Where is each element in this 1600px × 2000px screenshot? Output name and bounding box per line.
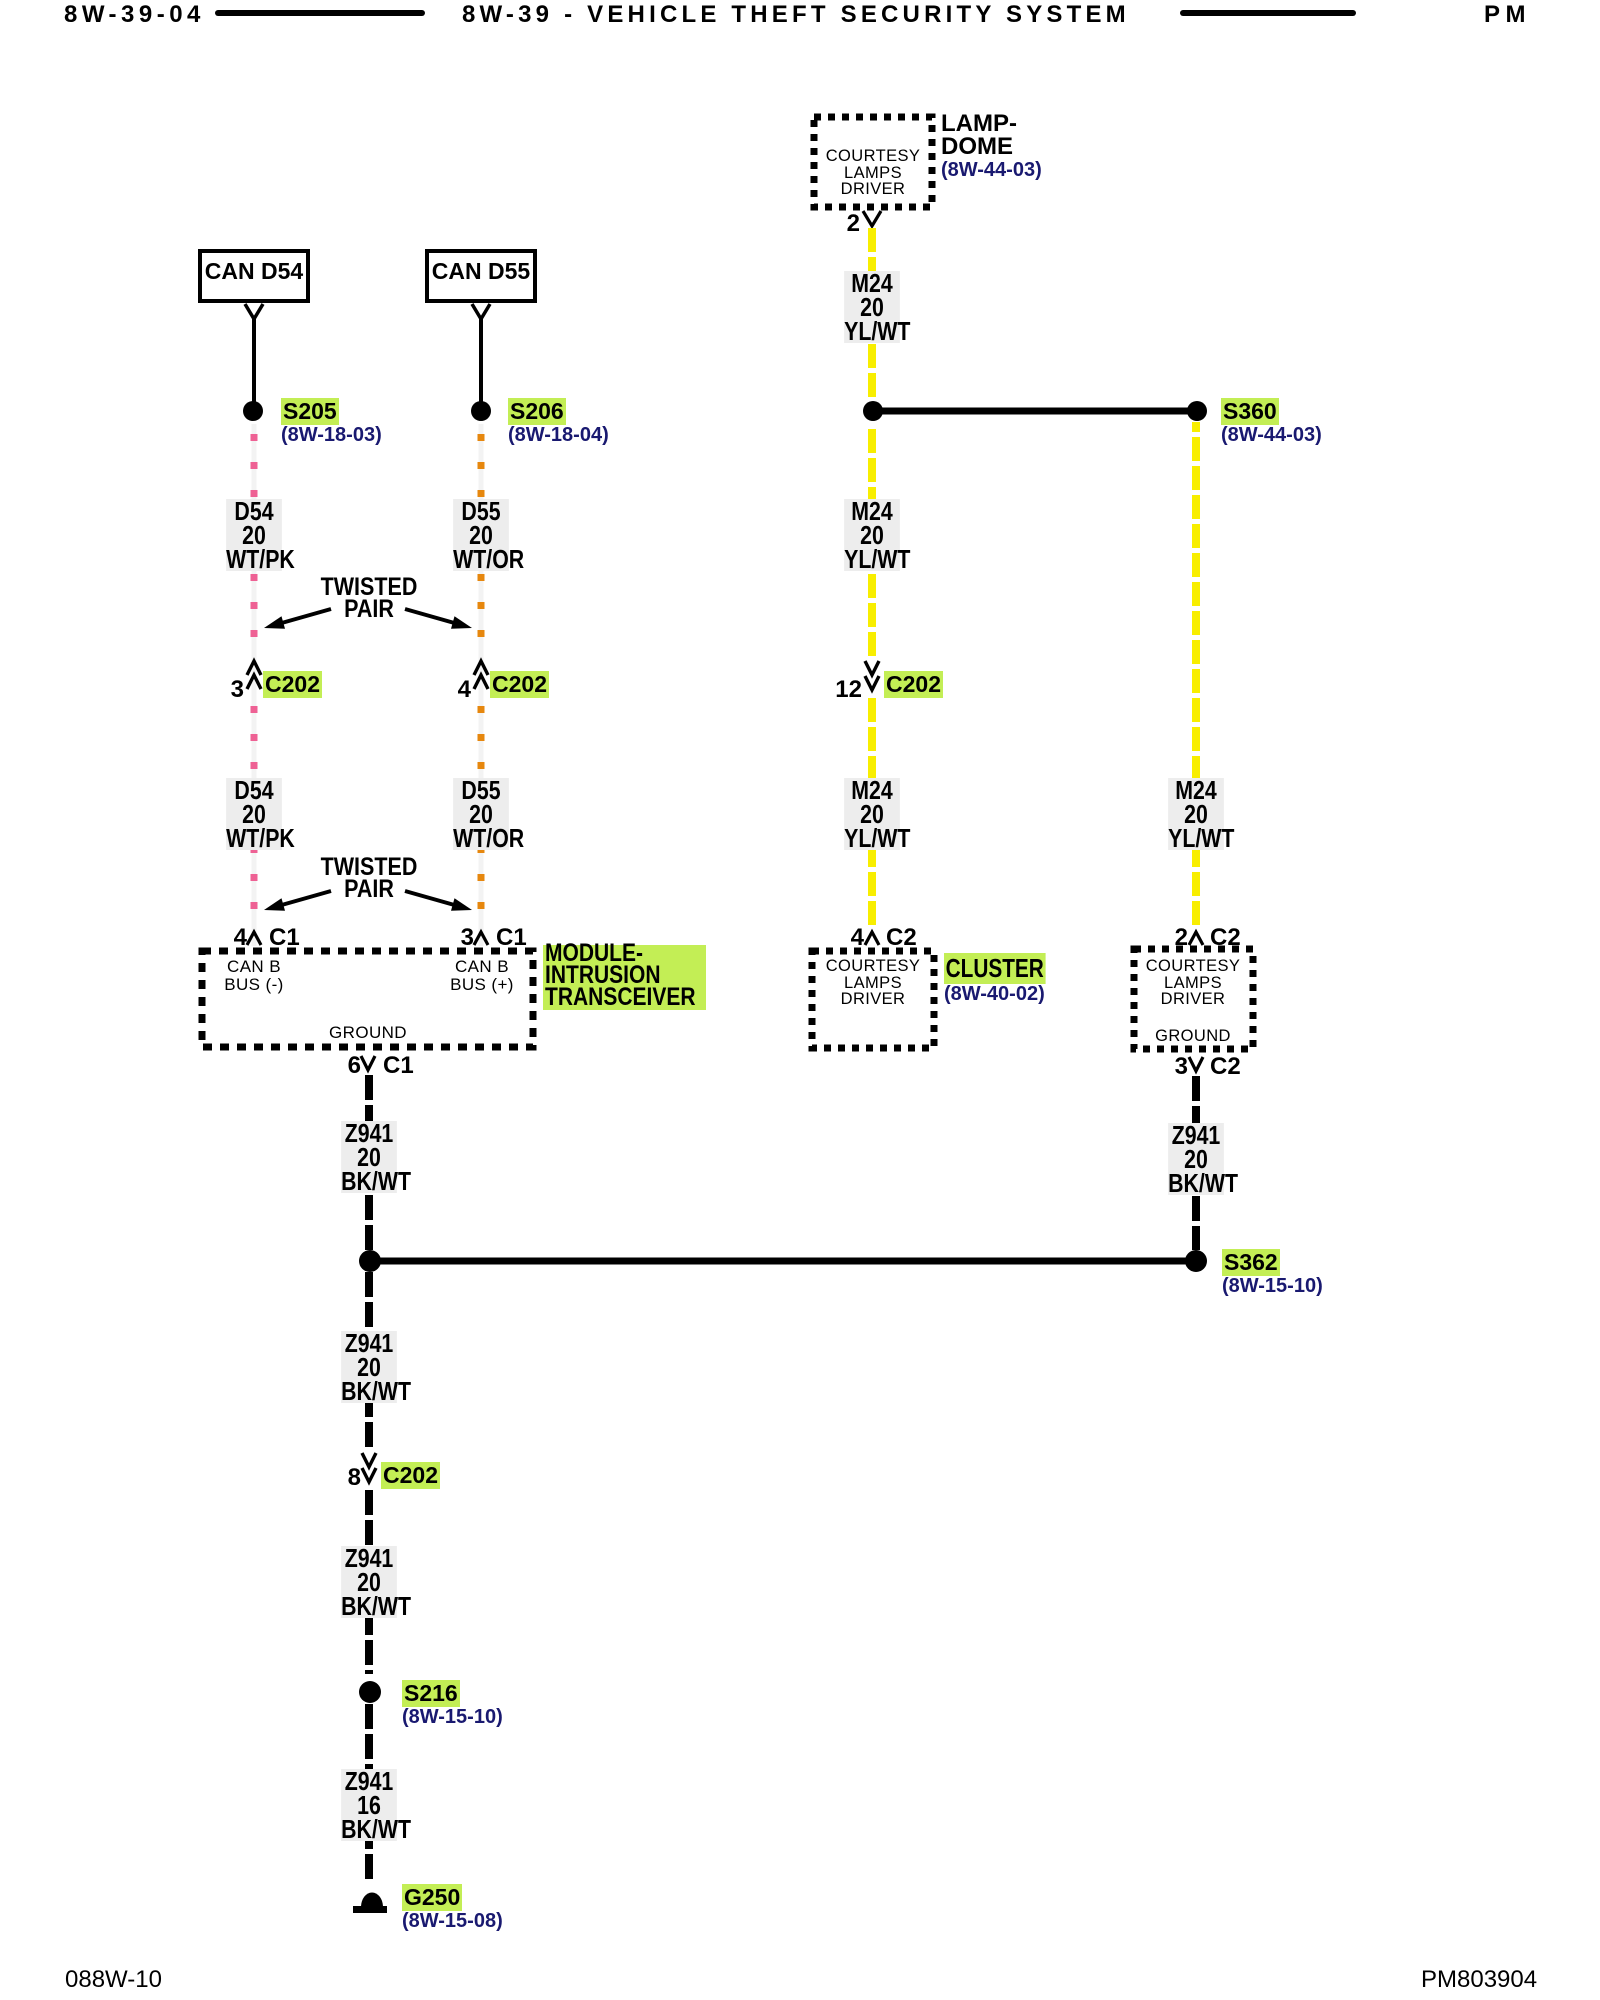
ref S362 xyxy=(1222,1275,1323,1298)
component box CAN D54 xyxy=(200,251,308,301)
label CLUSTER xyxy=(944,953,1045,984)
wire label M24 20 YL/WT mid xyxy=(844,499,900,571)
twisted pair arrows lower left xyxy=(264,891,331,911)
box text courtesy lamps driver (right) xyxy=(1146,958,1241,1008)
pin 4 C2 xyxy=(851,924,864,952)
pin 12 C202 xyxy=(835,676,862,704)
ref S216 xyxy=(402,1706,503,1729)
wire S360 bus horizontal xyxy=(873,408,1197,415)
box text ground right xyxy=(1155,1028,1231,1045)
connector 3 C202 double chevron up xyxy=(247,661,261,675)
wire label M24 20 YL/WT lower xyxy=(844,778,900,850)
wire D54 WT/PK lower segment (pink dots) xyxy=(251,706,258,928)
wire label Z941 20 BK/WT upper xyxy=(341,1331,397,1403)
ground G250 symbol xyxy=(361,1893,383,1908)
pin 6 C1 xyxy=(348,1052,361,1080)
label CAN D55 xyxy=(432,258,530,285)
label C202 bottom xyxy=(381,1462,440,1489)
wire D55 WT/OR upper segment (white base) xyxy=(479,424,484,946)
wire label D55 20 WT/OR upper xyxy=(453,499,509,571)
connector 3 C1 chevron up xyxy=(474,932,488,945)
footer left xyxy=(65,1966,162,1994)
note TWISTED PAIR lower xyxy=(321,856,418,900)
pin 3 C2 xyxy=(1175,1053,1188,1081)
ref CLUSTER xyxy=(944,983,1045,1006)
label MODULE-INTRUSION TRANSCEIVER xyxy=(543,945,706,1010)
connector 3 C2 chevron down xyxy=(1189,1057,1203,1071)
note TWISTED PAIR upper xyxy=(321,576,418,620)
connector 4 C202 double chevron up xyxy=(474,661,488,675)
twisted pair arrows upper right xyxy=(405,609,472,629)
wire Z941 below S362 xyxy=(365,1272,373,1448)
label C2 bottom right xyxy=(1210,1053,1241,1081)
pin 3 C202 xyxy=(231,676,244,704)
wire S362 bus horizontal xyxy=(370,1258,1196,1265)
module pin label CAN B BUS (+) xyxy=(450,958,514,994)
splice S205 xyxy=(243,401,263,421)
header PM xyxy=(1484,1,1531,29)
label C202 left xyxy=(263,671,322,698)
wire label M24 20 YL/WT right xyxy=(1168,778,1224,850)
splice S360 left junction xyxy=(863,401,883,421)
wire label M24 20 YL/WT top xyxy=(844,271,900,343)
wire D55 WT/OR upper segment (orange dots) xyxy=(478,434,485,656)
wire M24 right column xyxy=(1192,422,1200,925)
label C1 bottom xyxy=(383,1052,414,1080)
component box CAN D55 xyxy=(427,251,535,301)
wire M24 lower segment xyxy=(868,698,876,925)
wire label Z941 16 BK/WT xyxy=(341,1769,397,1841)
ref S360 xyxy=(1221,424,1322,447)
twisted pair arrows upper left xyxy=(264,609,331,629)
label C2 right xyxy=(1210,924,1241,952)
connector 2 V below LAMP-DOME xyxy=(863,211,881,226)
wire label Z941 20 BK/WT lower xyxy=(341,1546,397,1618)
pin 4 C1 xyxy=(234,924,247,952)
label C1 right xyxy=(496,924,527,952)
connector 4 C1 chevron up xyxy=(247,932,261,945)
connector 4 C2 chevron up xyxy=(865,932,879,945)
wire label D54 20 WT/PK lower xyxy=(226,778,282,850)
label C202 mid xyxy=(884,671,943,698)
wire label Z941 20 BK/WT above S362 xyxy=(341,1121,397,1193)
label S205 xyxy=(281,398,339,425)
wire Z941 below C202 xyxy=(365,1490,373,1674)
connector 12 C202 double chevron down xyxy=(865,661,879,675)
component box LAMP-DOME xyxy=(814,117,932,207)
wire Z941 16 below S216 xyxy=(365,1704,373,1884)
label S360 xyxy=(1221,398,1279,425)
label G250 xyxy=(402,1884,462,1911)
splice junction left on S362 bus xyxy=(359,1250,381,1272)
wire CAN D55 to S206 xyxy=(479,319,483,403)
twisted pair arrows lower right xyxy=(405,891,472,911)
label C2 mid xyxy=(886,924,917,952)
header rule left xyxy=(215,10,425,16)
splice S360 xyxy=(1187,401,1207,421)
connector V below CAN D54 xyxy=(245,304,263,319)
wire D55 WT/OR lower segment (orange dots) xyxy=(478,706,485,928)
wire CAN D54 to S205 xyxy=(252,319,256,403)
wire label Z941 20 BK/WT right xyxy=(1168,1123,1224,1195)
label CAN D54 xyxy=(205,258,303,285)
wire label D55 20 WT/OR lower xyxy=(453,778,509,850)
connector V below CAN D55 xyxy=(472,304,490,319)
wire label D54 20 WT/PK upper xyxy=(226,499,282,571)
splice S216 xyxy=(359,1681,381,1703)
pin 3 C1 xyxy=(461,924,474,952)
header rule right xyxy=(1180,10,1356,16)
wire M24 upper xyxy=(868,228,876,400)
splice S362 xyxy=(1185,1250,1207,1272)
ref LAMP-DOME xyxy=(941,159,1042,182)
pin 4 C202 xyxy=(458,676,471,704)
label S206 xyxy=(508,398,566,425)
label C1 left xyxy=(269,924,300,952)
label C202 mid-left xyxy=(490,671,549,698)
pin 8 C202 xyxy=(348,1464,361,1492)
ref G250 xyxy=(402,1910,503,1933)
connector 8 C202 double chevron down xyxy=(362,1453,376,1467)
component box courtesy lamps driver right xyxy=(1134,949,1253,1049)
pin 2 C2 xyxy=(1175,924,1188,952)
box text courtesy lamps driver (lamp-dome) xyxy=(826,148,921,198)
wire Z941 from module ground xyxy=(365,1075,373,1250)
wire M24 mid segment xyxy=(868,429,876,656)
component box MODULE-INTRUSION TRANSCEIVER xyxy=(202,951,533,1047)
connector 6 C1 chevron down xyxy=(361,1056,375,1070)
module pin label CAN B BUS (-) xyxy=(224,958,283,994)
component box CLUSTER courtesy lamps driver xyxy=(812,951,934,1048)
footer right xyxy=(1421,1966,1537,1994)
connector 2 C2 chevron up xyxy=(1189,932,1203,945)
wire D54 WT/PK upper segment (white base) xyxy=(252,424,257,946)
label S216 xyxy=(402,1680,460,1707)
wire Z941 right column xyxy=(1192,1076,1200,1250)
ref S206 xyxy=(508,424,609,447)
box text courtesy lamps driver (cluster) xyxy=(826,958,921,1008)
ref S205 xyxy=(281,424,382,447)
wire D54 WT/PK upper segment (pink dots) xyxy=(251,434,258,656)
splice S206 xyxy=(471,401,491,421)
pin 2 lamp-dome xyxy=(847,210,860,238)
header page number xyxy=(64,1,205,29)
header title xyxy=(462,1,1130,29)
module pin label GROUND xyxy=(329,1025,407,1042)
label LAMP-DOME xyxy=(941,112,1017,158)
label S362 xyxy=(1222,1249,1280,1276)
